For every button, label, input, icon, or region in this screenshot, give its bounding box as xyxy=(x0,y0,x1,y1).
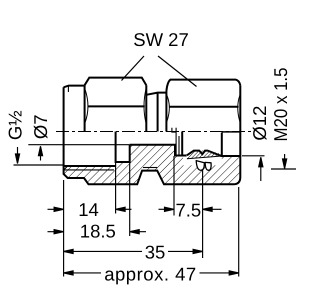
svg-text:SW 27: SW 27 xyxy=(133,29,189,50)
svg-text:G½: G½ xyxy=(5,110,26,140)
svg-text:approx. 47: approx. 47 xyxy=(104,264,196,285)
svg-text:7.5: 7.5 xyxy=(175,200,201,221)
svg-text:M20 x 1.5: M20 x 1.5 xyxy=(270,68,291,142)
svg-text:18.5: 18.5 xyxy=(80,221,116,242)
svg-text:35: 35 xyxy=(145,242,166,263)
svg-text:Ø12: Ø12 xyxy=(249,106,270,141)
svg-text:Ø7: Ø7 xyxy=(30,114,51,139)
svg-text:14: 14 xyxy=(78,199,99,220)
